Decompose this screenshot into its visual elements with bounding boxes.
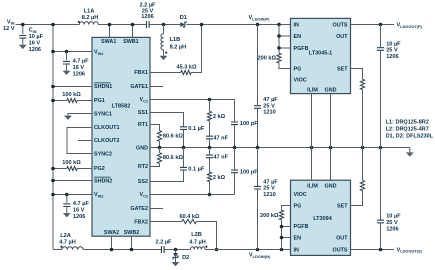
junction VC2 / 2k	[208, 193, 212, 197]
svg-text:VLDOOUT(S): VLDOOUT(S)	[397, 247, 423, 253]
svg-text:ILIM: ILIM	[307, 88, 318, 94]
svg-text:GND: GND	[325, 184, 337, 190]
svg-text:45.3 kΩ: 45.3 kΩ	[176, 65, 197, 71]
wire CLKOUT2 stub	[78, 140, 92, 142]
junction 10uF / gnd rail	[379, 146, 383, 150]
svg-text:VIN: VIN	[7, 19, 15, 25]
wire D2 anode	[175, 250, 177, 254]
junction VIN rail / left bus	[51, 23, 55, 27]
svg-text:16 V: 16 V	[29, 40, 41, 46]
svg-text:1210: 1210	[263, 110, 275, 116]
wire RSET LT3094 to gnd rail	[362, 148, 364, 181]
wire ILIM bus	[311, 94, 313, 181]
svg-text:L2A: L2A	[60, 233, 71, 239]
junction PG1 / left bus	[51, 99, 55, 103]
junction RT 80.6k / gnd rail	[158, 146, 162, 150]
svg-text:L1: DRQ125-8R2: L1: DRQ125-8R2	[386, 120, 429, 126]
wire 100pF to gnd rail	[234, 125, 236, 148]
svg-text:10 µF: 10 µF	[386, 214, 401, 220]
wire R 60.4k down to output rail	[196, 222, 216, 250]
wire 80.6k RT1 to gnd rail	[159, 141, 161, 147]
capacitor 47 nF VC2	[206, 155, 213, 158]
resistor 200 kOhm PG pullup LT3045	[277, 53, 281, 63]
junction GND pins / gnd rail	[329, 146, 333, 150]
ground at D2	[172, 262, 180, 266]
svg-text:SS2: SS2	[138, 179, 148, 185]
svg-text:SET: SET	[337, 203, 348, 209]
svg-text:L1B: L1B	[170, 37, 181, 43]
svg-text:100 pF: 100 pF	[240, 121, 258, 127]
resistor 80.6 kOhm RT2	[157, 153, 161, 164]
svg-text:4.7 µF: 4.7 µF	[73, 59, 90, 65]
wire L1B bottom	[163, 50, 165, 56]
svg-text:RT2: RT2	[138, 164, 148, 170]
junction left bus / VIN2	[51, 193, 55, 197]
wire 100k PG1 to left bus	[53, 100, 67, 102]
svg-text:IN: IN	[294, 247, 299, 253]
junction L1B / rail	[162, 23, 166, 27]
svg-text:80.6 kΩ: 80.6 kΩ	[163, 155, 184, 161]
svg-text:SYNC1: SYNC1	[94, 112, 112, 118]
wire SS2 to 0.1uF	[150, 170, 184, 181]
wire RSET LT3045 to gnd rail	[362, 90, 364, 148]
wire 2k to 47nF lower	[209, 158, 211, 172]
wire CLKOUT1 to SYNC2	[67, 128, 92, 154]
diode D1	[180, 22, 186, 27]
wire 47uF lower to bottom rail	[257, 189, 259, 249]
wire gnd rail to 47uF lower	[257, 148, 259, 187]
junction 45.3k / rail	[200, 23, 204, 27]
svg-text:VIOC: VIOC	[294, 192, 307, 198]
junction SWB1 / rail	[131, 23, 135, 27]
svg-text:D1: D1	[180, 15, 187, 21]
ground at SYNC1	[64, 116, 72, 120]
svg-text:EN: EN	[294, 236, 302, 242]
wire to VIN2 pin	[53, 194, 92, 196]
wire GATE2 stub	[150, 208, 163, 210]
resistor 2 kOhm VC1	[207, 111, 211, 121]
wire GND rail	[150, 147, 410, 149]
svg-text:4.7 µF: 4.7 µF	[73, 201, 90, 207]
svg-text:47 µF: 47 µF	[263, 97, 278, 103]
wire FBX2 to R 60.4k	[150, 221, 182, 223]
ground at CIN	[19, 45, 27, 49]
wire PG1 to resistor	[77, 100, 92, 102]
junction PGFB LT3094	[280, 225, 284, 229]
resistor RSET LT3094	[360, 180, 364, 190]
capacitor 100 pF VC2	[231, 170, 238, 173]
wire FBX1 to R 45.3k	[150, 72, 181, 74]
svg-text:47 µF: 47 µF	[263, 179, 278, 185]
inductor L2A 4.7uH	[62, 247, 83, 250]
wire RT2 to 80.6k	[150, 164, 160, 167]
junction SWA2 / rail	[110, 248, 114, 252]
wire VC1 to 2k	[209, 100, 211, 112]
junction SET resistors / gnd rail	[361, 146, 365, 150]
wire GATE1 stub	[150, 86, 163, 88]
wire to VIN1 pin	[53, 51, 92, 53]
junction ILIM / gnd rail	[310, 146, 314, 150]
inductor L2B 4.7uH	[191, 247, 205, 250]
svg-text:4.7 µH: 4.7 µH	[59, 240, 76, 246]
wire SWA1 to rail	[109, 25, 111, 38]
wire GND bus	[330, 94, 332, 181]
svg-text:1206: 1206	[73, 71, 85, 77]
svg-text:80.6 kΩ: 80.6 kΩ	[163, 134, 184, 140]
svg-text:1206: 1206	[29, 47, 41, 53]
wire SS1 cap to gnd rail	[183, 130, 185, 148]
junction SS caps / gnd rail	[182, 146, 186, 150]
capacitor 4.7uF VIN2 bypass	[63, 204, 70, 207]
wire VIN rail to L1A	[16, 24, 80, 26]
svg-text:SYNC2: SYNC2	[94, 152, 112, 158]
wire VC1 to 100pF	[234, 100, 236, 122]
wire gnd stub at rail end	[409, 148, 411, 153]
wire bypass cap2 top	[66, 195, 68, 203]
junction PGFB LT3045	[277, 46, 281, 50]
resistor 100 kOhm PG1	[67, 98, 77, 102]
wire VC2 to 100pF lower	[234, 173, 236, 195]
wire SYNC1 to ground	[68, 114, 92, 116]
svg-text:CIN: CIN	[29, 28, 37, 34]
inductor L1B 8.2uH	[161, 34, 164, 50]
junction OUTS / 10uF bottom	[379, 248, 383, 252]
wire left bus corner to L2A	[53, 249, 62, 251]
svg-text:CLKOUT2: CLKOUT2	[94, 138, 119, 144]
op-amp/IC U1 LT8582 block	[92, 37, 150, 236]
svg-text:12 V: 12 V	[3, 26, 15, 32]
ground at VIN1 bypass cap	[63, 71, 71, 75]
svg-text:CLKOUT1: CLKOUT1	[94, 125, 119, 131]
junction 100pF / gnd rail	[233, 146, 237, 150]
svg-text:16 V: 16 V	[73, 208, 85, 214]
junction OUTS / 10uF top	[379, 23, 383, 27]
junction PG2 / left bus	[51, 167, 55, 171]
wire 47uF top	[257, 25, 259, 106]
wire L2B to LT3094 IN (VLDOIN(N) rail)	[205, 249, 291, 251]
svg-text:SHDN2: SHDN2	[94, 178, 112, 184]
svg-text:SWA1: SWA1	[101, 39, 116, 45]
svg-text:47 nF: 47 nF	[213, 154, 228, 160]
svg-text:0.1 µF: 0.1 µF	[188, 126, 205, 132]
junction CIN / VIN rail	[21, 23, 25, 27]
svg-text:0.1 µF: 0.1 µF	[188, 167, 205, 173]
resistor 2 kOhm VC2	[207, 172, 211, 182]
wire OUTS LT3045 to VLDOOUT(P)	[351, 24, 395, 26]
svg-text:OUTS: OUTS	[333, 23, 348, 29]
wire bypass cap2 bottom	[66, 207, 68, 214]
resistor 100 kOhm PG2	[67, 166, 77, 170]
svg-text:D2: D2	[182, 255, 189, 261]
capacitor 2.2uF coupling bottom	[162, 246, 165, 253]
svg-text:2 kΩ: 2 kΩ	[213, 114, 226, 120]
svg-text:PGFB: PGFB	[294, 224, 309, 230]
junction EN LT3045	[277, 34, 281, 38]
wire 200k to PG pin LT3094	[282, 206, 291, 211]
wire SHDN1 to left bus	[53, 86, 92, 88]
svg-text:OUT: OUT	[336, 34, 348, 40]
wire SS1 to 0.1uF	[150, 113, 184, 127]
resistor 80.6 kOhm RT1	[157, 131, 161, 142]
svg-text:PG2: PG2	[94, 166, 105, 172]
junction VIN2 bypass cap	[65, 193, 69, 197]
svg-text:L1A: L1A	[84, 8, 95, 14]
wire D1 cathode to LT3045 IN (VLDOIN(P) rail)	[186, 24, 290, 26]
junction 47uF lower / bottom rail	[256, 248, 260, 252]
svg-text:IN: IN	[294, 23, 299, 29]
capacitor 4.7uF VIN1 bypass	[63, 61, 70, 64]
wire 10uF bottom column upper	[380, 148, 382, 221]
capacitor 2.2uF coupling top	[147, 21, 150, 28]
svg-text:PG1: PG1	[94, 98, 105, 104]
junction SHDN1 / left bus	[51, 85, 55, 89]
wire bypass cap1 bottom	[66, 64, 68, 71]
wire C1 to D1 anode	[149, 24, 180, 26]
wire 100k PG2 to left bus	[53, 168, 67, 170]
svg-text:FBX1: FBX1	[134, 70, 148, 76]
junction D2 / rail	[174, 248, 178, 252]
wire SWA2 to rail	[111, 236, 113, 249]
svg-text:1210: 1210	[263, 192, 275, 198]
svg-text:2.2 µF: 2.2 µF	[156, 239, 173, 245]
svg-text:L2: DRQ125-4R7: L2: DRQ125-4R7	[386, 127, 429, 133]
svg-text:8.2 µH: 8.2 µH	[82, 15, 99, 21]
resistor 45.3 kOhm FBX1	[181, 70, 191, 74]
junction EN bus / bottom rail	[280, 248, 284, 252]
wire to EN pin LT3094	[282, 237, 291, 239]
junction 47uF top / rail	[256, 23, 260, 27]
wire bypass cap1 top	[66, 52, 68, 61]
svg-text:1206: 1206	[386, 226, 398, 232]
wire D2 cathode	[175, 258, 177, 262]
ground at GND rail end	[406, 152, 414, 156]
wire VC2 node	[150, 194, 235, 196]
regulator U2 LT3045-1 block	[291, 18, 351, 93]
junction SWB2 / rail	[130, 248, 134, 252]
svg-text:SWA2: SWA2	[104, 230, 119, 236]
svg-text:SWB2: SWB2	[124, 230, 140, 236]
svg-text:8.2 µH: 8.2 µH	[170, 44, 187, 50]
junction EN bus / rail	[277, 23, 281, 27]
junction EN LT3094	[280, 236, 284, 240]
svg-text:1206: 1206	[386, 54, 398, 60]
svg-text:LT3045-1: LT3045-1	[309, 51, 332, 57]
svg-text:GND: GND	[136, 145, 148, 151]
junction 60.4k / bottom rail	[215, 248, 219, 252]
svg-text:EN: EN	[294, 34, 302, 40]
svg-text:25 V: 25 V	[263, 103, 275, 109]
svg-text:10 µF: 10 µF	[386, 41, 401, 47]
capacitor 10uF output S	[377, 220, 384, 223]
svg-text:SS1: SS1	[138, 110, 148, 116]
wire CIN bottom	[22, 38, 24, 45]
svg-text:100 pF: 100 pF	[240, 170, 258, 176]
capacitor 47uF lower	[254, 186, 261, 189]
wire L2A to coupling cap C2	[83, 249, 162, 251]
svg-text:2 kΩ: 2 kΩ	[213, 175, 226, 181]
wire 10uF top column lower	[380, 50, 382, 147]
svg-text:SET: SET	[337, 67, 348, 73]
svg-text:PG: PG	[294, 203, 302, 209]
capacitor CIN 10uF	[19, 36, 26, 39]
capacitor 100 pF VC1	[231, 122, 238, 125]
phase dot L2B	[205, 246, 207, 248]
wire R 45.3k up to output rail	[191, 25, 201, 73]
wire EN/PGFB bus LT3094	[281, 220, 283, 250]
resistor RSET LT3045	[360, 79, 364, 89]
wire to EN pin LT3045	[279, 35, 291, 37]
svg-text:100 kΩ: 100 kΩ	[62, 160, 81, 166]
phase dot L1A	[78, 21, 80, 23]
svg-text:16 V: 16 V	[73, 65, 85, 71]
junction 47nF / gnd rail	[208, 146, 212, 150]
wire SS2 cap to gnd rail	[183, 148, 185, 168]
svg-text:1206: 1206	[141, 14, 153, 20]
capacitor 0.1uF SS2	[180, 167, 187, 170]
junction 47uF / gnd rail	[256, 146, 260, 150]
svg-text:47 nF: 47 nF	[213, 136, 228, 142]
junction SWA1 / rail	[108, 23, 112, 27]
regulator U3 LT3094 block	[291, 180, 351, 255]
svg-text:4.7 µH: 4.7 µH	[189, 239, 206, 245]
capacitor 0.1uF SS1	[180, 127, 187, 130]
resistor 200 kOhm PG pullup LT3094	[279, 210, 283, 220]
wire 47uF to gnd rail	[257, 108, 259, 147]
wire EN/PGFB bus LT3045	[278, 25, 280, 54]
wire SET LT3094 to resistor	[351, 191, 363, 206]
wire CIN top	[22, 25, 24, 35]
svg-text:VLDOIN(N): VLDOIN(N)	[249, 253, 271, 259]
wire 2k to 47nF	[209, 121, 211, 136]
capacitor 47 nF VC1	[206, 136, 213, 139]
junction VC1 / 2k	[208, 98, 212, 102]
wire VC2 to 2k	[209, 182, 211, 195]
phase dot L2A	[60, 246, 62, 248]
junction VIN1 bypass cap	[65, 50, 69, 54]
wire 80.6k RT2 to gnd rail	[159, 148, 161, 153]
svg-text:1206: 1206	[73, 214, 85, 220]
svg-text:10 µF: 10 µF	[29, 34, 44, 40]
wire 10uF top column upper	[380, 25, 382, 48]
wire 200k to PG pin LT3045	[279, 63, 291, 69]
wire 100pF lower to gnd rail	[234, 148, 236, 171]
junction SHDN2 / left bus	[51, 179, 55, 183]
wire SWB1 to rail	[132, 25, 134, 38]
svg-text:200 kΩ: 200 kΩ	[260, 213, 279, 219]
wire VC1 node	[150, 99, 235, 101]
svg-text:VLDOIN(P): VLDOIN(P)	[249, 15, 271, 21]
svg-text:LT3094: LT3094	[313, 216, 332, 222]
ground at VIN2 bypass cap	[63, 213, 71, 217]
wire RT1 to 80.6k	[150, 125, 160, 131]
wire OUTS LT3094 to VLDOOUT(S)	[351, 249, 395, 251]
svg-text:SWB1: SWB1	[123, 39, 139, 45]
wire SHDN2 to left bus	[53, 180, 92, 182]
svg-text:D1, D2: DFLS230L: D1, D2: DFLS230L	[386, 134, 434, 140]
svg-text:GATE1: GATE1	[130, 84, 148, 90]
svg-text:100 kΩ: 100 kΩ	[62, 92, 81, 98]
junction left bus / VIN1	[51, 50, 55, 54]
wire PG2 to resistor	[77, 168, 92, 170]
wire L1B top	[163, 25, 165, 34]
svg-text:LT8582: LT8582	[112, 103, 131, 109]
wire SWB2 to rail	[131, 236, 133, 249]
svg-text:25 V: 25 V	[386, 220, 398, 226]
wire 10uF bottom column lower	[380, 223, 382, 250]
svg-text:SHDN1: SHDN1	[94, 84, 112, 90]
svg-text:FBX2: FBX2	[134, 220, 148, 226]
capacitor 47uF upper	[254, 106, 261, 109]
wire L1A to coupling cap C1	[98, 24, 146, 26]
svg-text:L2B: L2B	[191, 232, 202, 238]
phase dot L1B	[165, 52, 167, 54]
wire 47nF to gnd rail	[209, 139, 211, 148]
svg-text:RT1: RT1	[138, 122, 148, 128]
svg-text:VLDOOUT(P): VLDOOUT(P)	[397, 23, 423, 29]
svg-text:OUTS: OUTS	[333, 247, 348, 253]
svg-text:GND: GND	[325, 88, 337, 94]
svg-text:GATE2: GATE2	[130, 206, 148, 212]
svg-text:ILIM: ILIM	[307, 184, 318, 190]
svg-text:PG: PG	[294, 67, 302, 73]
wire 47nF lower to gnd rail	[209, 148, 211, 156]
svg-text:200 kΩ: 200 kΩ	[258, 55, 277, 61]
wire to PGFB pin LT3045	[279, 47, 291, 49]
svg-text:25 V: 25 V	[386, 48, 398, 54]
diode D2	[173, 253, 178, 259]
ground at L1B	[160, 56, 168, 60]
wire left VIN vertical bus	[52, 25, 54, 250]
svg-text:VIOC: VIOC	[294, 78, 307, 84]
wire SET LT3045 to resistor	[351, 69, 363, 80]
wire to PGFB pin LT3094	[282, 226, 291, 228]
svg-text:60.4 kΩ: 60.4 kΩ	[179, 214, 200, 220]
resistor 60.4 kOhm FBX2	[182, 219, 197, 223]
svg-text:PGFB: PGFB	[294, 46, 309, 52]
capacitor 10uF output P	[377, 48, 384, 51]
wire C2 to L2B	[164, 249, 190, 251]
inductor L1A 8.2uH	[79, 22, 98, 25]
svg-text:OUT: OUT	[336, 236, 348, 242]
svg-text:25 V: 25 V	[263, 186, 275, 192]
